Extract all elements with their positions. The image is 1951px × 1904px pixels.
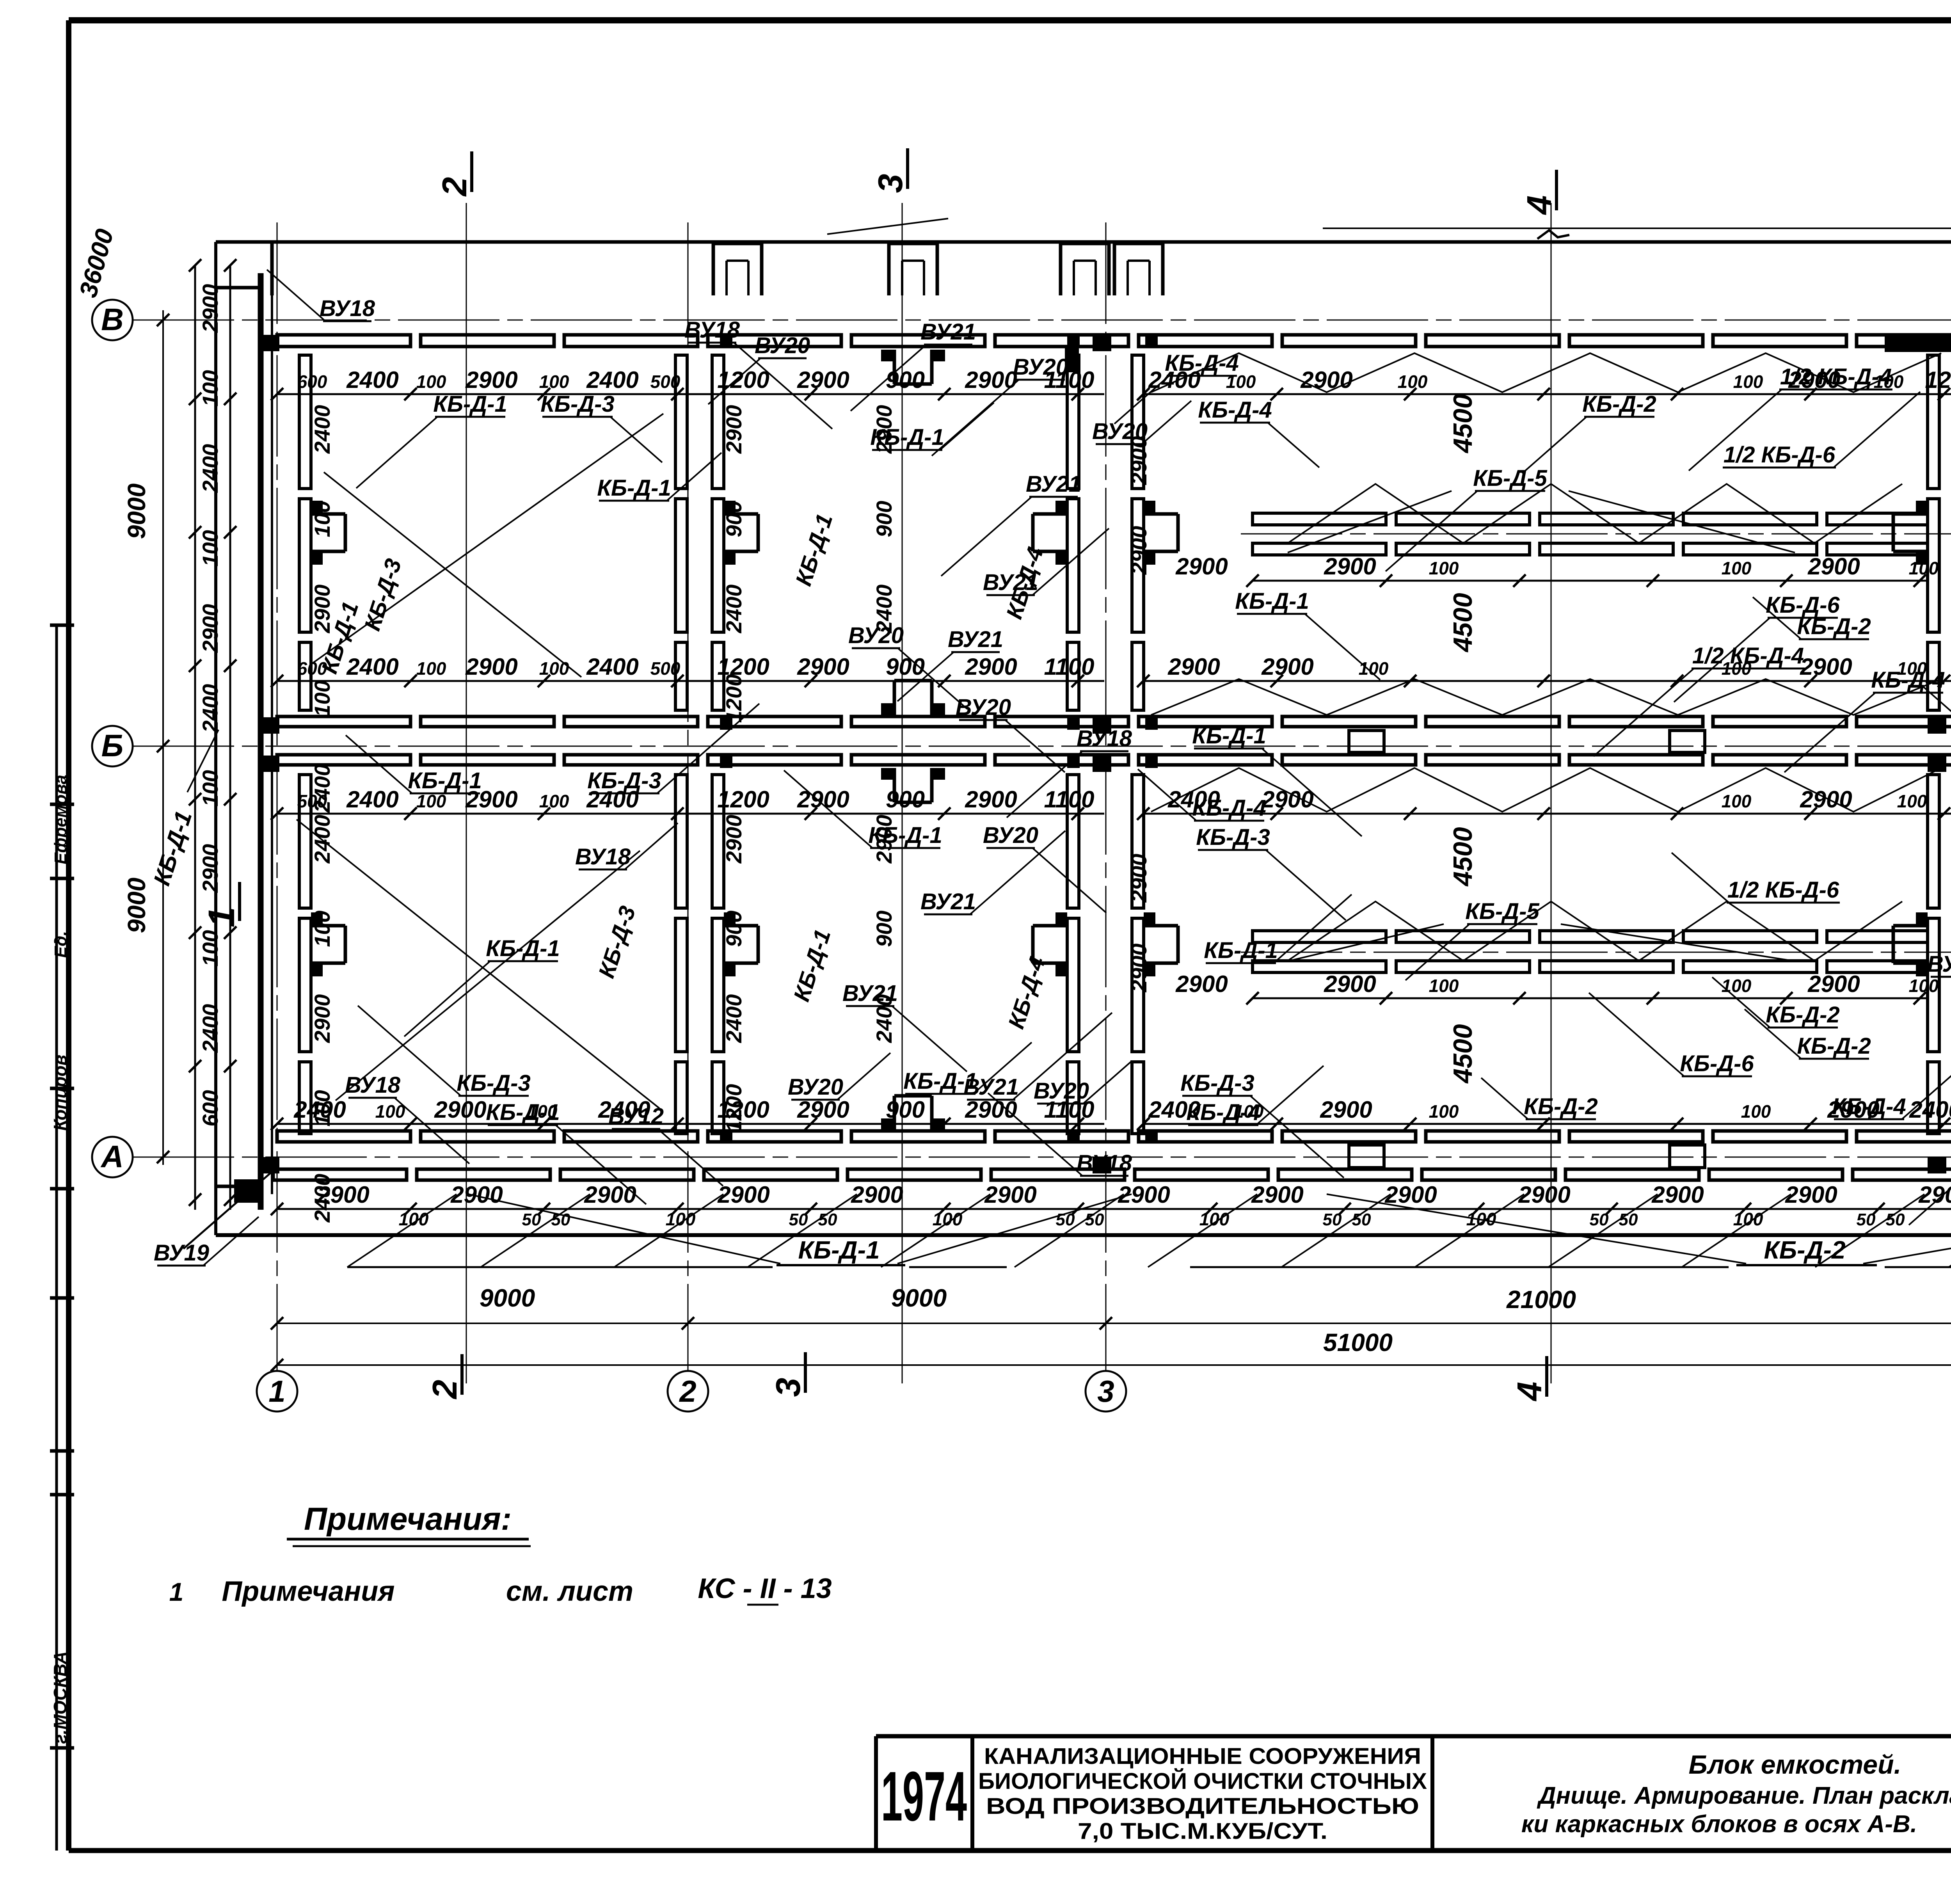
svg-text:ВУ19: ВУ19 [154,1240,209,1266]
svg-text:Примечания:: Примечания: [304,1501,512,1537]
svg-text:КБ-Д-2: КБ-Д-2 [1797,1033,1871,1059]
svg-text:2400: 2400 [310,764,334,813]
svg-text:2900: 2900 [1807,971,1860,997]
svg-text:ВУ30: ВУ30 [1927,951,1951,977]
svg-text:2900: 2900 [797,367,849,393]
svg-text:2900: 2900 [1324,971,1376,997]
svg-text:100: 100 [539,791,569,811]
svg-text:А: А [100,1139,124,1174]
svg-text:4500: 4500 [1448,1024,1478,1084]
svg-text:900: 900 [721,910,746,947]
svg-text:2400: 2400 [198,444,222,493]
svg-text:2900: 2900 [1651,1182,1704,1208]
svg-text:ВУ20: ВУ20 [983,823,1038,848]
svg-text:100: 100 [198,770,222,806]
svg-text:КБ-Д-4: КБ-Д-4 [1165,350,1239,376]
svg-text:2900: 2900 [1518,1182,1570,1208]
svg-text:50: 50 [522,1210,541,1229]
svg-text:КБ-Д-2: КБ-Д-2 [1524,1094,1598,1119]
svg-text:9000: 9000 [480,1284,535,1312]
svg-text:600: 600 [297,372,327,392]
svg-text:КБ-Д-4: КБ-Д-4 [1832,1094,1906,1119]
svg-text:100: 100 [1733,372,1763,392]
svg-text:КБ-Д-1: КБ-Д-1 [1192,723,1266,748]
svg-text:2900: 2900 [450,1182,503,1208]
svg-text:Днище. Армирование. План: Днище. Армирование. План расклад- [1537,1782,1951,1809]
svg-text:7,0 ТЫС.М.КУБ/СУТ.: 7,0 ТЫС.М.КУБ/СУТ. [1078,1819,1327,1844]
svg-text:КБ-Д-3: КБ-Д-3 [457,1070,531,1096]
svg-text:4: 4 [1520,196,1558,215]
svg-text:ВУ21: ВУ21 [920,319,976,345]
svg-text:4: 4 [1510,1382,1549,1402]
svg-text:2900: 2900 [310,994,334,1044]
svg-text:100: 100 [310,910,334,947]
svg-text:КБ-Д-6: КБ-Д-6 [1680,1051,1754,1076]
svg-text:2400: 2400 [346,367,398,393]
svg-text:9000: 9000 [123,484,151,539]
svg-text:500: 500 [650,372,681,392]
svg-text:50: 50 [789,1210,808,1229]
svg-text:КБ-Д-1: КБ-Д-1 [486,936,560,961]
svg-text:2400: 2400 [721,994,746,1044]
svg-text:2900: 2900 [434,1097,486,1123]
svg-text:2900: 2900 [797,786,849,812]
svg-text:КБ-Д-1: КБ-Д-1 [1235,588,1309,614]
svg-text:51000: 51000 [1323,1328,1393,1356]
svg-text:2900: 2900 [198,284,222,333]
svg-text:ВУ18: ВУ18 [1077,1150,1132,1176]
svg-text:КБ-Д-1: КБ-Д-1 [870,425,944,450]
svg-text:2900: 2900 [1118,1182,1170,1208]
svg-text:2900: 2900 [465,367,517,393]
svg-text:2400: 2400 [198,684,222,733]
svg-text:ВУ20: ВУ20 [1092,419,1148,444]
svg-text:ВУ20: ВУ20 [755,333,810,358]
svg-text:900: 900 [886,367,925,393]
svg-text:4500: 4500 [1448,394,1478,453]
svg-text:см. лист: см. лист [506,1576,633,1607]
svg-text:900: 900 [886,1097,925,1123]
svg-text:9000: 9000 [123,878,151,933]
svg-text:1: 1 [169,1577,184,1606]
svg-text:КС - II - 13: КС - II - 13 [698,1573,832,1604]
svg-text:1/2 КБ-Д-4: 1/2 КБ-Д-4 [1692,643,1804,668]
svg-text:ВУ21: ВУ21 [920,889,976,914]
svg-text:2400: 2400 [310,405,334,454]
svg-text:ВОД ПРОИЗВОДИТЕЛЬНОСТЬЮ: ВОД ПРОИЗВОДИТЕЛЬНОСТЬЮ [986,1794,1419,1819]
svg-text:2900: 2900 [1800,654,1852,680]
svg-text:2400: 2400 [586,654,638,680]
svg-text:БИОЛОГИЧЕСКОЙ ОЧИСТКИ СТОЧНЫХ: БИОЛОГИЧЕСКОЙ ОЧИСТКИ СТОЧНЫХ [978,1769,1427,1794]
svg-text:100: 100 [1429,558,1459,578]
svg-text:1100: 1100 [1044,654,1094,680]
svg-text:1: 1 [201,907,242,928]
svg-text:100: 100 [399,1209,429,1229]
svg-text:ВУ20: ВУ20 [1034,1078,1089,1104]
svg-text:100: 100 [198,930,222,966]
svg-text:2900: 2900 [1251,1182,1303,1208]
svg-text:2900: 2900 [721,405,746,454]
svg-text:2900: 2900 [1324,553,1376,580]
svg-text:КБ-Д-1: КБ-Д-1 [1204,938,1278,963]
svg-text:100: 100 [933,1209,963,1229]
svg-text:1200: 1200 [1925,367,1951,393]
svg-text:2900: 2900 [465,654,517,680]
svg-text:100: 100 [416,658,446,679]
svg-text:3: 3 [871,174,910,193]
svg-text:100: 100 [1429,1101,1459,1122]
svg-text:ВУ18: ВУ18 [684,317,740,343]
svg-text:50: 50 [1590,1210,1609,1229]
svg-text:2900: 2900 [984,1182,1036,1208]
svg-text:КБ-Д-4: КБ-Д-4 [1871,667,1945,693]
svg-text:КБ-Д-2: КБ-Д-2 [1766,1002,1840,1028]
svg-text:1200: 1200 [721,674,746,723]
svg-text:КБ-Д-1: КБ-Д-1 [408,768,482,793]
svg-text:4500: 4500 [1448,827,1478,887]
svg-text:ки каркасных блоков в: ки каркасных блоков в осях А-В. [1521,1811,1917,1838]
svg-text:600: 600 [198,1090,222,1126]
svg-text:100: 100 [1398,372,1428,392]
svg-text:500: 500 [650,658,681,679]
svg-text:2400: 2400 [1909,1097,1951,1123]
svg-text:1: 1 [268,1374,285,1408]
svg-text:ВУ20: ВУ20 [956,695,1011,720]
svg-text:2900: 2900 [1167,654,1220,680]
svg-text:900: 900 [872,910,896,947]
svg-text:100: 100 [1429,976,1459,996]
svg-text:100: 100 [1199,1209,1230,1229]
svg-text:2900: 2900 [1127,854,1151,903]
svg-text:2900: 2900 [198,844,222,893]
svg-text:100: 100 [198,530,222,566]
svg-text:КБ-Д-4: КБ-Д-4 [1186,1100,1260,1125]
svg-text:Ефремова: Ефремова [51,775,70,864]
svg-text:2900: 2900 [1127,944,1151,993]
svg-text:2900: 2900 [1384,1182,1437,1208]
svg-text:В: В [101,302,124,337]
svg-text:2900: 2900 [1785,1182,1837,1208]
svg-text:КБ-Д-3: КБ-Д-3 [1180,1070,1254,1096]
svg-text:100: 100 [1359,658,1389,679]
svg-text:КБ-Д-2: КБ-Д-2 [1764,1236,1845,1264]
svg-text:Примечания: Примечания [222,1576,394,1607]
svg-text:1200: 1200 [721,1084,746,1133]
svg-text:2900: 2900 [717,1182,769,1208]
svg-text:КБ-Д-5: КБ-Д-5 [1465,899,1539,924]
svg-text:2900: 2900 [965,654,1017,680]
svg-text:ВУ21: ВУ21 [842,981,898,1006]
svg-text:ВУ20: ВУ20 [788,1074,843,1100]
svg-text:2900: 2900 [1175,553,1228,580]
svg-text:2900: 2900 [198,604,222,653]
svg-text:КБ-Д-5: КБ-Д-5 [1473,466,1547,491]
svg-text:2900: 2900 [1800,786,1852,812]
svg-text:2900: 2900 [1175,971,1228,997]
svg-text:1/2 КБ-Д-6: 1/2 КБ-Д-6 [1727,877,1839,903]
svg-text:100: 100 [539,372,569,392]
svg-text:100: 100 [310,1090,334,1126]
svg-text:КАНАЛИЗАЦИОННЫЕ СООРУЖЕНИЯ: КАНАЛИЗАЦИОННЫЕ СООРУЖЕНИЯ [984,1744,1421,1769]
svg-text:2: 2 [435,177,474,197]
svg-text:2900: 2900 [1127,526,1151,575]
svg-text:КБ-Д-1: КБ-Д-1 [486,1100,560,1125]
svg-text:1/2 КБ-Д-4: 1/2 КБ-Д-4 [1780,364,1892,389]
svg-text:Б: Б [101,728,124,763]
svg-text:100: 100 [1741,1101,1771,1122]
svg-text:2: 2 [425,1380,464,1399]
svg-text:ВУ20: ВУ20 [848,623,904,648]
svg-text:100: 100 [198,370,222,406]
svg-text:1974: 1974 [881,1757,967,1836]
svg-text:2900: 2900 [1320,1097,1372,1123]
svg-text:900: 900 [872,501,896,537]
svg-text:100: 100 [310,680,334,716]
svg-text:КБ-Д-1: КБ-Д-1 [868,823,942,848]
svg-text:9000: 9000 [891,1284,947,1312]
svg-text:2900: 2900 [965,786,1017,812]
svg-text:2400: 2400 [346,654,398,680]
svg-text:100: 100 [416,372,446,392]
svg-text:КБ-Д-3: КБ-Д-3 [540,391,615,417]
svg-text:900: 900 [721,501,746,537]
svg-text:3: 3 [769,1378,807,1397]
svg-text:100: 100 [1897,791,1927,811]
svg-text:КБ-Д-4: КБ-Д-4 [1192,795,1266,821]
svg-text:2900: 2900 [584,1182,636,1208]
svg-text:1200: 1200 [717,786,769,812]
svg-text:КБ-Д-1: КБ-Д-1 [433,391,507,417]
svg-text:ВУ18: ВУ18 [1077,726,1132,751]
svg-text:1/2 КБ-Д-6: 1/2 КБ-Д-6 [1724,442,1836,468]
svg-text:г.МОСКВА: г.МОСКВА [50,1651,70,1744]
svg-text:ВУ18: ВУ18 [320,296,375,321]
svg-text:21000: 21000 [1506,1285,1576,1314]
svg-text:4500: 4500 [1448,593,1478,652]
svg-text:2900: 2900 [797,654,849,680]
svg-text:2900: 2900 [1261,786,1313,812]
svg-text:100: 100 [1909,976,1939,996]
svg-text:100: 100 [1733,1209,1763,1229]
svg-text:100: 100 [1909,558,1939,578]
svg-text:100: 100 [539,658,569,679]
svg-text:2900: 2900 [721,815,746,864]
svg-text:2400: 2400 [586,367,638,393]
svg-text:900: 900 [886,786,925,812]
svg-text:2400: 2400 [721,585,746,634]
svg-text:100: 100 [310,501,334,537]
svg-text:100: 100 [1722,791,1752,811]
svg-text:2900: 2900 [1300,367,1352,393]
svg-text:1100: 1100 [1044,786,1094,812]
svg-text:2900: 2900 [1261,654,1313,680]
svg-text:ВУ12: ВУ12 [608,1104,664,1129]
svg-text:3: 3 [1097,1374,1114,1408]
svg-text:КБ-Д-3: КБ-Д-3 [587,768,661,793]
svg-text:КБ-Д-2: КБ-Д-2 [1797,614,1871,639]
svg-text:50: 50 [1857,1210,1876,1229]
svg-text:2900: 2900 [851,1182,903,1208]
svg-text:2: 2 [679,1374,696,1408]
svg-text:2400: 2400 [346,786,398,812]
svg-text:КБ-Д-1: КБ-Д-1 [597,475,671,501]
svg-text:2400: 2400 [310,1174,334,1223]
svg-text:100: 100 [666,1209,696,1229]
svg-text:50: 50 [1323,1210,1342,1229]
svg-text:ВУ20: ВУ20 [1013,354,1068,380]
svg-text:2900: 2900 [1807,553,1860,580]
svg-text:КБ-Д-1: КБ-Д-1 [798,1236,880,1264]
svg-text:2400: 2400 [198,1004,222,1053]
svg-text:Копиров: Копиров [50,1055,70,1131]
svg-text:КБ-Д-2: КБ-Д-2 [1582,391,1656,417]
svg-text:Ед.: Ед. [51,931,70,958]
svg-text:Блок емкостей.: Блок емкостей. [1688,1750,1901,1780]
svg-text:ВУ21: ВУ21 [948,627,1003,652]
svg-text:КБ-Д-3: КБ-Д-3 [1196,825,1270,850]
svg-text:ВУ21: ВУ21 [1026,471,1081,497]
svg-text:100: 100 [1722,558,1752,578]
svg-text:КБ-Д-4: КБ-Д-4 [1198,397,1272,423]
svg-text:100: 100 [1722,976,1752,996]
